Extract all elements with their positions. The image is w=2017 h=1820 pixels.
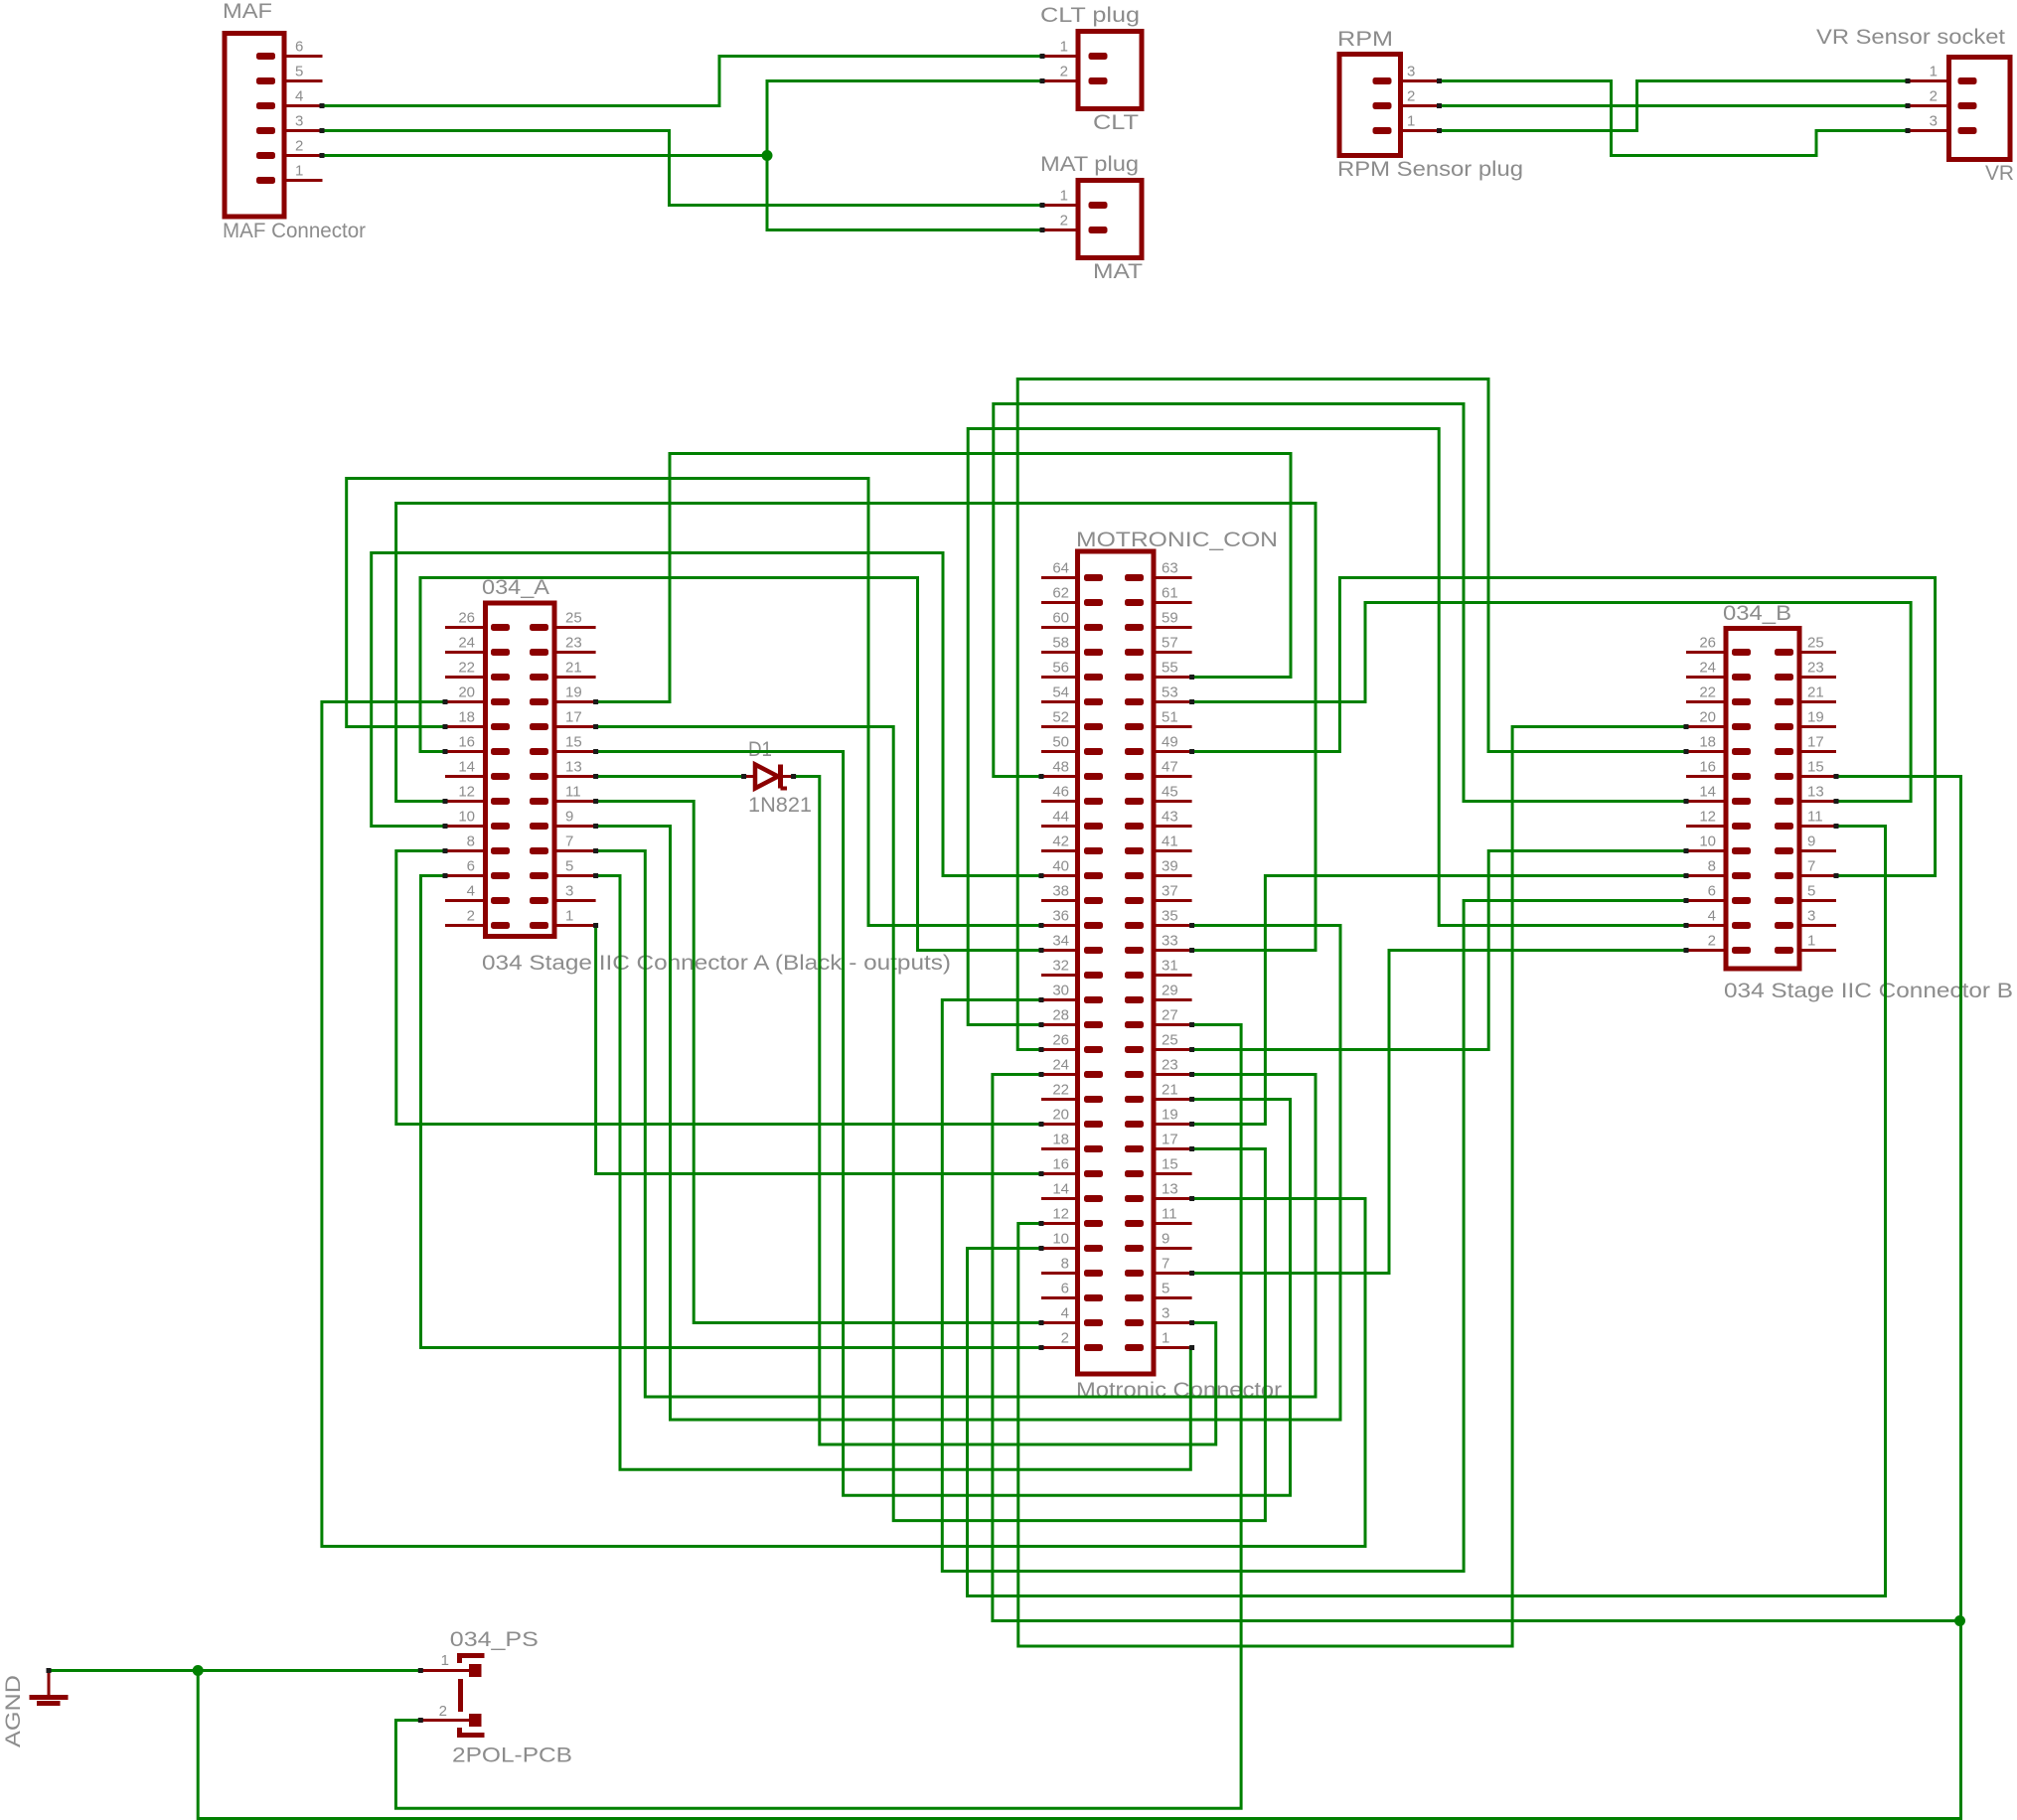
svg-text:47: 47: [1162, 759, 1178, 776]
label VR (value): [1985, 162, 2014, 185]
connector 034_PS (2POL-PCB power supply): [420, 1656, 484, 1736]
svg-text:64: 64: [1052, 560, 1069, 577]
svg-text:8: 8: [1061, 1256, 1069, 1273]
svg-text:38: 38: [1052, 883, 1069, 900]
svg-text:51: 51: [1162, 709, 1178, 726]
label 034_A (name): [482, 576, 549, 599]
svg-text:41: 41: [1162, 834, 1178, 850]
svg-text:1: 1: [441, 1652, 449, 1669]
svg-text:MAT: MAT: [1093, 260, 1143, 283]
label CLT plug (name): [1040, 4, 1140, 27]
label CLT (value): [1093, 111, 1139, 134]
svg-text:13: 13: [1807, 784, 1824, 801]
svg-text:MAF Connector: MAF Connector: [223, 220, 366, 242]
wire 034_A-15 to MOTRONIC-21: [593, 749, 1290, 1495]
wire D1 cathode to MOTRONIC-3: [791, 774, 1216, 1444]
pin numbers MAF 6..1: [295, 39, 303, 180]
label 2POL-PCB (value): [452, 1744, 572, 1767]
wire 034_A-9 to MOTRONIC-35: [593, 824, 1340, 1420]
svg-text:2: 2: [1061, 1330, 1069, 1347]
svg-text:034_B: 034_B: [1723, 602, 1791, 625]
wire 034_A-13 to D1 anode: [593, 774, 746, 779]
svg-text:57: 57: [1162, 635, 1178, 652]
label D1 (name): [748, 738, 772, 761]
svg-text:034_PS: 034_PS: [450, 1628, 539, 1651]
pin numbers CLT 1,2: [1060, 39, 1068, 80]
svg-text:15: 15: [1162, 1156, 1178, 1173]
svg-text:18: 18: [1052, 1132, 1069, 1148]
svg-text:21: 21: [565, 660, 582, 677]
svg-text:56: 56: [1052, 660, 1069, 677]
connector RPM (RPM Sensor plug): [1339, 55, 1440, 156]
wire AGND to 034_PS-1: [47, 1668, 423, 1673]
svg-text:8: 8: [1708, 858, 1716, 875]
svg-text:26: 26: [458, 610, 475, 627]
label Motronic Connector (value): [1076, 1379, 1282, 1402]
svg-text:22: 22: [458, 660, 475, 677]
wire 034_A-10 to MOTRONIC-40: [372, 553, 1044, 879]
svg-text:20: 20: [458, 684, 475, 701]
pin numbers RPM 3,2,1: [1407, 64, 1415, 130]
svg-text:14: 14: [458, 759, 475, 776]
svg-text:12: 12: [1699, 809, 1716, 826]
label MAT (value): [1093, 260, 1143, 283]
svg-text:6: 6: [295, 39, 303, 56]
svg-text:58: 58: [1052, 635, 1069, 652]
svg-text:28: 28: [1052, 1007, 1069, 1024]
svg-text:46: 46: [1052, 784, 1069, 801]
pin numbers MOTRONIC_CON right 63..1: [1162, 560, 1178, 1347]
svg-text:1: 1: [1407, 113, 1415, 130]
svg-text:9: 9: [565, 809, 573, 826]
svg-text:29: 29: [1162, 983, 1178, 999]
svg-text:1: 1: [1162, 1330, 1169, 1347]
svg-text:21: 21: [1162, 1082, 1178, 1099]
wire MOTRONIC-27 to 034_PS-2: [395, 1022, 1241, 1808]
connector MAT (MAT plug): [1042, 181, 1142, 258]
svg-text:034_A: 034_A: [482, 576, 549, 599]
wire 034_A-20 to MOTRONIC-13: [322, 699, 1365, 1547]
svg-text:10: 10: [1699, 834, 1716, 850]
label MOTRONIC_CON (name): [1076, 529, 1278, 551]
svg-text:6: 6: [1061, 1281, 1069, 1297]
svg-text:7: 7: [1807, 858, 1815, 875]
wire 034_A-16 to MOTRONIC-34: [420, 578, 1044, 954]
svg-text:60: 60: [1052, 610, 1069, 627]
svg-text:1: 1: [1807, 933, 1815, 950]
wire RPM-1 to VR-1: [1437, 78, 1911, 133]
label 1N821 (value): [748, 794, 812, 817]
label 034_B (name): [1723, 602, 1791, 625]
connector MAF (MAF Connector): [225, 34, 323, 218]
svg-text:2: 2: [439, 1703, 447, 1720]
svg-text:26: 26: [1699, 635, 1716, 652]
svg-text:17: 17: [1807, 734, 1824, 751]
svg-text:39: 39: [1162, 858, 1178, 875]
svg-text:19: 19: [565, 684, 582, 701]
pin numbers 034_A right 25..1: [565, 610, 582, 925]
svg-text:17: 17: [1162, 1132, 1178, 1148]
svg-text:25: 25: [1162, 1032, 1178, 1049]
label 034_PS (name): [450, 1628, 539, 1651]
svg-text:22: 22: [1699, 684, 1716, 701]
wire MOTRONIC-7 to 034_B-2: [1189, 948, 1688, 1276]
wire MAF-2 to CLT-2 segment: [767, 78, 1045, 83]
svg-text:MAT plug: MAT plug: [1040, 153, 1139, 176]
svg-text:49: 49: [1162, 734, 1178, 751]
svg-text:14: 14: [1699, 784, 1716, 801]
svg-text:6: 6: [1708, 883, 1716, 900]
wire 034_A-17 to MOTRONIC-17: [593, 724, 1265, 1521]
svg-text:24: 24: [458, 635, 475, 652]
label RPM Sensor plug (value): [1337, 158, 1523, 181]
svg-text:52: 52: [1052, 709, 1069, 726]
svg-text:19: 19: [1807, 709, 1824, 726]
wire 034_A-6 to MOTRONIC-2: [421, 873, 1044, 1350]
svg-text:35: 35: [1162, 908, 1178, 925]
svg-text:17: 17: [565, 709, 582, 726]
svg-text:7: 7: [565, 834, 573, 850]
svg-text:4: 4: [467, 883, 475, 900]
svg-text:3: 3: [295, 113, 303, 130]
wire MOTRONIC-12 to 034_B-20: [1018, 724, 1689, 1646]
svg-text:33: 33: [1162, 933, 1178, 950]
svg-text:VR: VR: [1985, 162, 2014, 185]
svg-text:2: 2: [467, 908, 475, 925]
wire AGND net to bottom rail: [193, 1665, 1960, 1819]
svg-text:62: 62: [1052, 585, 1069, 602]
svg-text:1: 1: [1060, 39, 1068, 56]
ground AGND: [30, 1671, 69, 1704]
connector MOTRONIC_CON (Motronic Connector): [1041, 551, 1192, 1374]
svg-text:21: 21: [1807, 684, 1824, 701]
svg-text:1: 1: [565, 908, 573, 925]
svg-text:034 Stage IIC Connector B: 034 Stage IIC Connector B: [1724, 980, 2013, 1002]
svg-text:63: 63: [1162, 560, 1178, 577]
wire MOTRONIC-19 to 034_B-8: [1189, 873, 1688, 1127]
svg-text:CLT plug: CLT plug: [1040, 4, 1140, 27]
svg-text:30: 30: [1052, 983, 1069, 999]
svg-text:6: 6: [467, 858, 475, 875]
wire MAF-3 to MAT-1: [320, 128, 1045, 208]
svg-text:22: 22: [1052, 1082, 1069, 1099]
svg-text:2: 2: [1060, 64, 1068, 80]
svg-text:2: 2: [1708, 933, 1716, 950]
svg-text:3: 3: [565, 883, 573, 900]
svg-text:23: 23: [1807, 660, 1824, 677]
svg-text:25: 25: [1807, 635, 1824, 652]
svg-text:31: 31: [1162, 958, 1178, 975]
wire MOTRONIC-10 to 034_B-11: [968, 824, 1886, 1596]
svg-text:RPM: RPM: [1337, 28, 1393, 51]
label AGND: [2, 1675, 25, 1747]
wire RPM-3 to VR-3: [1437, 78, 1911, 156]
svg-text:32: 32: [1052, 958, 1069, 975]
svg-text:20: 20: [1052, 1107, 1069, 1124]
pin numbers 034_A left 26..2: [458, 610, 475, 925]
svg-text:45: 45: [1162, 784, 1178, 801]
pin numbers MOTRONIC_CON left 64..2: [1052, 560, 1069, 1347]
wire MOTRONIC-28 to 034_B-4: [968, 429, 1688, 1028]
svg-text:9: 9: [1807, 834, 1815, 850]
svg-text:36: 36: [1052, 908, 1069, 925]
connector 034_B (034 Stage IIC Connector B): [1686, 629, 1836, 970]
svg-text:27: 27: [1162, 1007, 1178, 1024]
svg-text:16: 16: [1699, 759, 1716, 776]
svg-text:3: 3: [1162, 1305, 1169, 1322]
svg-text:VR Sensor socket: VR Sensor socket: [1816, 26, 2005, 49]
svg-text:9: 9: [1162, 1231, 1169, 1248]
svg-text:37: 37: [1162, 883, 1178, 900]
svg-text:55: 55: [1162, 660, 1178, 677]
wire MOTRONIC-30 to 034_B-6: [942, 898, 1688, 1572]
wire MOTRONIC-26 to 034_B-18: [1017, 379, 1688, 1053]
wire MOTRONIC-48 to 034_B-14: [994, 404, 1689, 805]
svg-text:2POL-PCB: 2POL-PCB: [452, 1744, 572, 1767]
svg-text:18: 18: [458, 709, 475, 726]
wire 034_A-11 to MOTRONIC-4: [593, 799, 1043, 1325]
svg-text:2: 2: [295, 138, 303, 155]
svg-text:20: 20: [1699, 709, 1716, 726]
svg-text:26: 26: [1052, 1032, 1069, 1049]
diode D1 1N821: [744, 765, 794, 789]
svg-text:1N821: 1N821: [748, 794, 812, 817]
svg-text:11: 11: [1162, 1206, 1177, 1223]
wire MOTRONIC-24 to junction: [993, 1072, 1960, 1621]
svg-text:54: 54: [1052, 684, 1069, 701]
svg-text:16: 16: [1052, 1156, 1069, 1173]
svg-text:D1: D1: [748, 738, 772, 761]
svg-text:10: 10: [458, 809, 475, 826]
pin numbers 034_B right 25..1: [1807, 635, 1824, 950]
svg-text:2: 2: [1407, 88, 1415, 105]
wire MAF-2 to MAT-2 segment: [762, 150, 1045, 232]
label MAF (name): [223, 0, 272, 23]
svg-text:3: 3: [1807, 908, 1815, 925]
svg-text:11: 11: [1807, 809, 1823, 826]
svg-text:23: 23: [1162, 1057, 1178, 1074]
wire 034_A-1 to MOTRONIC-16: [593, 923, 1043, 1176]
label MAT plug (name): [1040, 153, 1139, 176]
svg-text:42: 42: [1052, 834, 1069, 850]
svg-text:48: 48: [1052, 759, 1069, 776]
svg-text:AGND: AGND: [2, 1675, 25, 1747]
svg-text:RPM Sensor plug: RPM Sensor plug: [1337, 158, 1523, 181]
svg-text:24: 24: [1052, 1057, 1069, 1074]
wire MAF-4 to CLT-1: [320, 54, 1045, 108]
wire RPM-2 to VR-2: [1437, 103, 1911, 108]
wire MOTRONIC-53 to 034_B-13: [1189, 603, 1911, 805]
svg-text:5: 5: [1162, 1281, 1169, 1297]
pin numbers MAT 1,2: [1060, 188, 1068, 229]
wire 034_A-5 to MOTRONIC-1: [593, 873, 1194, 1469]
svg-text:1: 1: [1930, 64, 1938, 80]
svg-text:4: 4: [295, 88, 303, 105]
connector 034_A (034 Stage IIC Connector A): [445, 603, 596, 937]
svg-text:CLT: CLT: [1093, 111, 1139, 134]
svg-text:43: 43: [1162, 809, 1178, 826]
svg-text:1: 1: [295, 163, 303, 180]
svg-text:4: 4: [1061, 1305, 1069, 1322]
svg-text:61: 61: [1162, 585, 1178, 602]
svg-text:34: 34: [1052, 933, 1069, 950]
wire MOTRONIC-49 to 034_B-7: [1189, 578, 1936, 879]
svg-text:MAF: MAF: [223, 0, 272, 23]
pin numbers VR 1,2,3: [1930, 64, 1938, 130]
svg-text:25: 25: [565, 610, 582, 627]
wire MOTRONIC-25 to 034_B-10: [1189, 848, 1688, 1052]
svg-text:8: 8: [467, 834, 475, 850]
connector VR (VR Sensor socket): [1908, 58, 2010, 160]
svg-text:16: 16: [458, 734, 475, 751]
svg-text:13: 13: [565, 759, 582, 776]
svg-text:15: 15: [1807, 759, 1824, 776]
svg-text:18: 18: [1699, 734, 1716, 751]
svg-text:5: 5: [295, 64, 303, 80]
pin numbers 034_B left 26..2: [1699, 635, 1716, 950]
svg-text:1: 1: [1060, 188, 1068, 205]
svg-text:14: 14: [1052, 1181, 1069, 1198]
wire 034_A-12 to MOTRONIC-33: [396, 504, 1316, 954]
label 034 Stage IIC Connector B (value): [1724, 980, 2013, 1002]
label RPM (name): [1337, 28, 1393, 51]
svg-text:23: 23: [565, 635, 582, 652]
label MAF Connector (value): [223, 220, 366, 242]
wire 034_A-19 to MOTRONIC-55: [593, 454, 1291, 705]
wire 034_A-8 to MOTRONIC-20: [396, 848, 1044, 1127]
svg-text:7: 7: [1162, 1256, 1169, 1273]
label 034 Stage IIC Connector A (Black - outputs) (value): [482, 952, 951, 975]
wire 034_B-15 to AGND net vertical: [1834, 774, 1966, 1819]
pin numbers 034_PS 1,2: [439, 1652, 449, 1720]
wire MAF-2 net vertical segment: [766, 81, 769, 230]
svg-text:2: 2: [1930, 88, 1938, 105]
svg-text:11: 11: [565, 784, 581, 801]
svg-text:44: 44: [1052, 809, 1069, 826]
svg-text:12: 12: [458, 784, 475, 801]
svg-text:3: 3: [1407, 64, 1415, 80]
svg-text:Motronic Connector: Motronic Connector: [1076, 1379, 1282, 1402]
svg-text:5: 5: [1807, 883, 1815, 900]
svg-text:13: 13: [1162, 1181, 1178, 1198]
svg-text:10: 10: [1052, 1231, 1069, 1248]
svg-text:4: 4: [1708, 908, 1716, 925]
svg-text:12: 12: [1052, 1206, 1069, 1223]
svg-text:24: 24: [1699, 660, 1716, 677]
svg-text:19: 19: [1162, 1107, 1178, 1124]
label VR Sensor socket (name): [1816, 26, 2005, 49]
svg-text:3: 3: [1930, 113, 1938, 130]
svg-text:MOTRONIC_CON: MOTRONIC_CON: [1076, 529, 1278, 551]
wire MAF-2 to CLT-2 and MAT-2 segment A: [320, 153, 768, 158]
svg-text:15: 15: [565, 734, 582, 751]
svg-text:2: 2: [1060, 213, 1068, 229]
svg-text:50: 50: [1052, 734, 1069, 751]
wire 034_A-18 to MOTRONIC-36: [347, 479, 1044, 929]
svg-text:53: 53: [1162, 684, 1178, 701]
svg-text:5: 5: [565, 858, 573, 875]
svg-text:034 Stage IIC Connector A (Bla: 034 Stage IIC Connector A (Black - outpu…: [482, 952, 951, 975]
connector CLT (CLT plug): [1042, 32, 1142, 109]
wire 034_A-7 to MOTRONIC-23: [593, 848, 1316, 1397]
svg-text:59: 59: [1162, 610, 1178, 627]
svg-text:40: 40: [1052, 858, 1069, 875]
